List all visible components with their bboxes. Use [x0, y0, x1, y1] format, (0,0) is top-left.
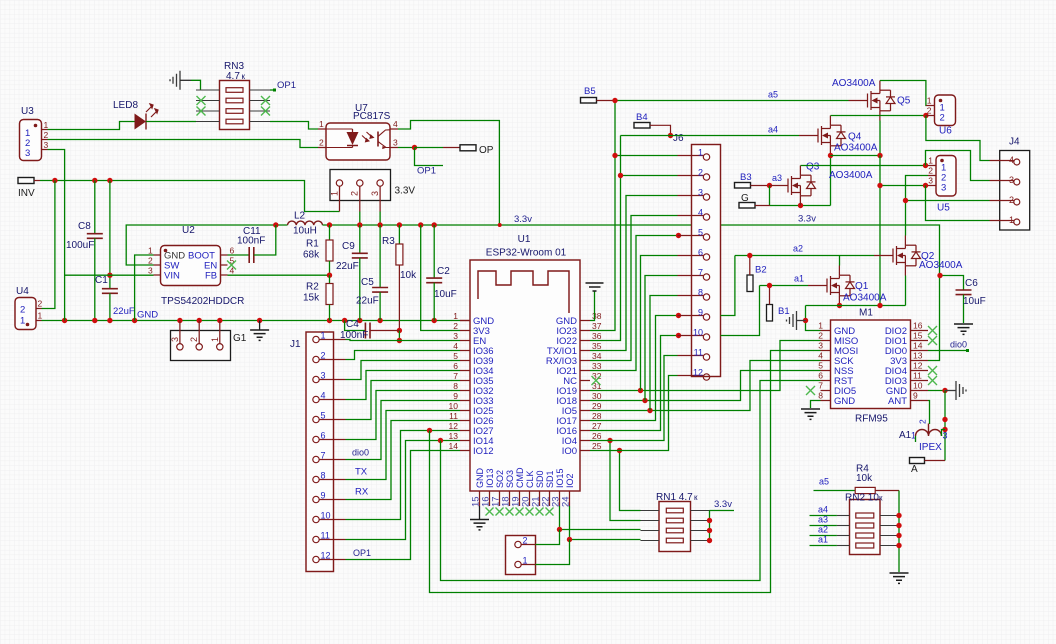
svg-text:1: 1 [1009, 215, 1014, 225]
svg-text:2: 2 [918, 419, 928, 424]
svg-text:3: 3 [941, 183, 946, 194]
junction [668, 133, 673, 138]
wire Q4 source [830, 156, 832, 206]
svg-text:a5: a5 [768, 90, 778, 100]
wire U5.3 row [880, 185, 928, 187]
svg-text:a4: a4 [818, 505, 828, 515]
svg-text:10: 10 [321, 511, 331, 521]
svg-text:OP1: OP1 [417, 166, 436, 177]
port B2 [747, 275, 753, 292]
wire J1.8 to U1 [346, 411, 461, 480]
junction [107, 178, 112, 183]
svg-text:8: 8 [453, 381, 458, 391]
junction [273, 222, 278, 227]
svg-text:CLK: CLK [525, 470, 535, 488]
junction [896, 533, 901, 538]
svg-text:2: 2 [189, 337, 199, 342]
svg-text:1: 1 [321, 331, 326, 341]
junction [828, 153, 833, 158]
svg-text:3: 3 [1009, 175, 1014, 185]
no-connect marks RN3 [197, 96, 206, 105]
wire ANT to IPEX [928, 401, 930, 425]
svg-text:26: 26 [592, 431, 602, 441]
svg-text:68k: 68k [303, 250, 320, 261]
svg-text:5: 5 [818, 361, 823, 371]
resistor R4 10k [814, 490, 856, 492]
junction [617, 448, 622, 453]
svg-text:M1: M1 [859, 308, 873, 319]
svg-text:4: 4 [321, 391, 326, 401]
wire P2.1 [536, 540, 570, 565]
junction [427, 428, 432, 433]
wire J1.6 to U1 [346, 391, 461, 440]
svg-text:U4: U4 [16, 286, 29, 297]
svg-text:1: 1 [210, 337, 220, 342]
svg-text:2: 2 [44, 130, 49, 140]
svg-text:2: 2 [20, 305, 25, 316]
svg-text:B1: B1 [778, 306, 790, 317]
junction [676, 333, 681, 338]
net label a2 (RN2) [810, 535, 837, 537]
wire a4 row [621, 135, 800, 137]
svg-text:U6: U6 [939, 126, 952, 137]
junction [557, 527, 562, 532]
wire IO15 to RN1.3 [560, 506, 641, 530]
transistor Q2 AO3400A [874, 236, 921, 276]
svg-text:IO2: IO2 [565, 473, 575, 488]
wire a1 to J6.10 [721, 286, 760, 336]
svg-text:10k: 10k [400, 270, 417, 281]
svg-text:U5: U5 [937, 203, 950, 214]
svg-text:10k: 10k [856, 473, 873, 484]
svg-text:IPEX: IPEX [919, 442, 942, 453]
transistor Q1 AO3400A [808, 266, 855, 306]
junction [357, 222, 362, 227]
no-connect M1.15 [928, 336, 937, 345]
wire M1.10 GND [928, 390, 945, 392]
wire J1.12 to U1 [346, 451, 461, 560]
wire RN1 common [709, 511, 711, 541]
junction [923, 183, 928, 188]
wire IO22 riser (a4) [590, 136, 621, 341]
junction [397, 328, 402, 333]
svg-text:2: 2 [928, 166, 933, 176]
svg-text:2: 2 [319, 138, 324, 148]
resistor R3 10k [398, 225, 400, 244]
svg-text:C4: C4 [346, 319, 359, 330]
svg-text:3: 3 [928, 176, 933, 186]
svg-text:12: 12 [449, 421, 459, 431]
svg-text:7: 7 [698, 268, 703, 278]
svg-text:Q3: Q3 [806, 162, 820, 173]
svg-text:14: 14 [449, 441, 459, 451]
svg-text:2: 2 [148, 256, 153, 266]
junction [418, 222, 423, 227]
wire RX to J6.4 [590, 216, 678, 361]
svg-text:36: 36 [592, 331, 602, 341]
svg-text:a3: a3 [818, 515, 828, 525]
svg-text:1: 1 [319, 119, 324, 129]
svg-text:3.3V: 3.3V [395, 186, 416, 197]
wire U3.3 to GND [48, 150, 65, 321]
wire IO16 to J6.10 [590, 336, 678, 431]
wire Q5 drain to U6.1 [880, 81, 926, 106]
svg-text:R3: R3 [382, 236, 395, 247]
wire 3.3v to ESP 3V3 [421, 225, 460, 331]
connector J4 [1000, 151, 1030, 231]
junction [877, 183, 882, 188]
wire U6.2 to J4.4 [926, 116, 990, 161]
svg-text:2: 2 [818, 331, 823, 341]
svg-text:1: 1 [453, 311, 458, 321]
wire R3/C4 to EN [398, 331, 400, 341]
wire J1.9 to U1 [346, 421, 461, 500]
junction [942, 427, 947, 432]
wire IO0 to J6.12 [590, 376, 678, 451]
junction [707, 528, 712, 533]
svg-text:CMD: CMD [515, 467, 525, 488]
svg-text:4.7: 4.7 [226, 71, 240, 82]
svg-text:5: 5 [453, 351, 458, 361]
svg-text:1: 1 [698, 148, 703, 158]
junction [803, 318, 808, 323]
junction [798, 203, 803, 208]
capacitor C8 100uF [94, 181, 96, 234]
wire IO5 to SCK [590, 361, 821, 411]
svg-text:12: 12 [693, 368, 703, 378]
junction [357, 318, 362, 323]
svg-text:2: 2 [38, 299, 43, 309]
svg-text:a1: a1 [794, 274, 804, 284]
wire J6.8 riser [650, 296, 678, 411]
svg-text:6: 6 [818, 371, 823, 381]
ground (rail) [259, 321, 261, 331]
junction [837, 303, 842, 308]
transistor Q3 AO3400A [769, 166, 816, 206]
svg-text:GND: GND [137, 310, 158, 321]
svg-text:12: 12 [321, 551, 331, 561]
module M1 RFM95 [831, 320, 911, 409]
wire U5.2 to J4.2 [906, 176, 990, 201]
svg-text:GND: GND [475, 468, 485, 489]
no-connect M1.12 [928, 366, 937, 375]
svg-text:C9: C9 [342, 241, 355, 252]
antenna connector A1 IPEX [916, 424, 942, 437]
svg-text:B2: B2 [755, 265, 767, 276]
junction [896, 543, 901, 548]
svg-text:C6: C6 [965, 278, 978, 289]
transistor Q4 AO3400A [799, 116, 846, 156]
junction [923, 113, 928, 118]
svg-text:J4: J4 [1009, 137, 1020, 148]
wire U7.3 to OP flag [398, 147, 415, 149]
junction [177, 318, 182, 323]
svg-text:GND: GND [834, 396, 855, 407]
wire J6.6 riser [641, 256, 678, 391]
svg-text:6: 6 [321, 431, 326, 441]
junction [92, 318, 97, 323]
wire Q1 drain [839, 256, 841, 266]
svg-text:AO3400A: AO3400A [832, 78, 876, 89]
svg-text:9: 9 [321, 491, 326, 501]
svg-text:33: 33 [592, 361, 602, 371]
junction [397, 222, 402, 227]
net label OP1 (U7) [415, 148, 444, 166]
svg-text:B3: B3 [740, 172, 752, 183]
svg-text:3: 3 [170, 337, 180, 342]
ground (C6) [954, 324, 973, 334]
wire U4.2 to INV [42, 181, 55, 309]
svg-text:OP1: OP1 [277, 80, 296, 91]
svg-text:к: к [694, 493, 698, 502]
svg-text:R1: R1 [306, 239, 319, 250]
junction [642, 398, 647, 403]
svg-text:PC817S: PC817S [353, 111, 391, 122]
svg-text:15k: 15k [303, 293, 320, 304]
svg-text:a3: a3 [772, 173, 782, 183]
wire IO19 to MISO [590, 341, 821, 391]
svg-text:22uF: 22uF [336, 261, 359, 272]
svg-text:4: 4 [453, 341, 458, 351]
svg-text:AO3400A: AO3400A [834, 143, 878, 154]
junction [62, 318, 67, 323]
net label a1 (RN2) [810, 545, 837, 547]
junction [327, 318, 332, 323]
junction (3.3v label) [498, 223, 502, 227]
junction [342, 318, 347, 323]
junction [647, 408, 652, 413]
junction [327, 273, 332, 278]
svg-text:U1: U1 [518, 234, 531, 245]
svg-text:3: 3 [818, 341, 823, 351]
wire IO2 to RN1.4 [570, 506, 641, 540]
wire a4 to J6.2 [621, 175, 678, 177]
capacitor C5 22uF [379, 225, 381, 288]
svg-text:2: 2 [321, 351, 326, 361]
svg-text:Q4: Q4 [848, 132, 862, 143]
svg-text:1: 1 [44, 120, 49, 130]
svg-text:2: 2 [523, 536, 528, 546]
svg-text:100nF: 100nF [237, 236, 265, 247]
connector J1 [306, 332, 334, 572]
svg-text:a1: a1 [818, 535, 828, 545]
junction [377, 222, 382, 227]
no-connect M1.7 [806, 386, 815, 395]
svg-text:2: 2 [927, 106, 932, 116]
svg-text:U3: U3 [21, 106, 34, 117]
junction [92, 178, 97, 183]
ground (tilted, M1.1) [797, 320, 806, 322]
svg-text:4: 4 [393, 119, 398, 129]
wire gnd row 305 [806, 305, 906, 307]
capacitor C2 10uF [433, 225, 435, 278]
junction [327, 222, 332, 227]
junction [942, 388, 947, 393]
svg-text:9: 9 [913, 391, 918, 401]
port G [739, 203, 755, 209]
junction [767, 183, 772, 188]
svg-text:30: 30 [592, 391, 602, 401]
svg-text:a2: a2 [793, 244, 803, 254]
svg-text:SO2: SO2 [495, 470, 505, 488]
svg-text:1: 1 [20, 316, 25, 327]
svg-text:1: 1 [148, 246, 153, 256]
resistor network RN1 4.7k [659, 502, 691, 552]
svg-text:11: 11 [321, 531, 330, 541]
svg-text:8: 8 [321, 471, 326, 481]
junction [896, 513, 901, 518]
svg-text:IO13: IO13 [485, 468, 495, 488]
junction [612, 98, 617, 103]
svg-text:SO3: SO3 [505, 470, 515, 488]
svg-text:A: A [911, 464, 918, 475]
LED LED8 [135, 114, 147, 130]
svg-text:к: к [242, 72, 246, 81]
net label OP1 (RN3) [270, 89, 275, 91]
wire U5.3 to J4.1 [926, 186, 990, 221]
net label a3 (RN2) [810, 525, 837, 527]
svg-text:RX: RX [355, 487, 369, 498]
port B3 [735, 183, 751, 189]
svg-text:J6: J6 [673, 133, 684, 144]
junction [903, 198, 908, 203]
svg-text:1: 1 [38, 311, 43, 321]
capacitor C4 100nF [345, 321, 366, 331]
svg-text:G: G [741, 193, 749, 204]
svg-text:1: 1 [928, 156, 933, 166]
port A [910, 458, 925, 464]
resistor network RN2 10k [850, 500, 881, 555]
svg-text:G1: G1 [233, 333, 247, 344]
svg-text:IO0: IO0 [562, 446, 577, 457]
svg-text:2: 2 [940, 113, 945, 124]
svg-text:INV: INV [18, 188, 35, 199]
wire U5.1 to J4.3 [926, 151, 990, 181]
svg-text:12: 12 [913, 361, 923, 371]
svg-text:28: 28 [592, 411, 602, 421]
port OP [415, 147, 444, 149]
no-connect U1.32 [592, 376, 601, 385]
wire gnd to RN3.1 [191, 80, 201, 90]
wire M1.8 to ground [811, 401, 821, 409]
connector U5 [936, 156, 956, 197]
junction [197, 318, 202, 323]
wire R4 to gnd [898, 491, 900, 573]
svg-text:16: 16 [913, 321, 923, 331]
wire U3.1 to LED8 [48, 122, 135, 130]
svg-text:L2: L2 [294, 211, 306, 222]
svg-text:9: 9 [698, 308, 703, 318]
svg-text:100uF: 100uF [66, 240, 94, 251]
svg-text:3: 3 [321, 371, 326, 381]
wire IO4 to J6.11 [590, 356, 678, 441]
svg-text:3.3v: 3.3v [714, 499, 732, 510]
resistor R1 68k [329, 225, 331, 240]
svg-text:B4: B4 [636, 112, 648, 123]
svg-text:3: 3 [44, 140, 49, 150]
wire 3.3v rail [323, 225, 940, 361]
wire IO23 riser (a5) [590, 101, 615, 331]
junction [567, 537, 572, 542]
svg-text:ESP32-Wroom 01: ESP32-Wroom 01 [486, 248, 567, 259]
wire LED8 to RN3.4 [146, 121, 196, 123]
svg-text:13: 13 [913, 351, 923, 361]
no-connect marks U1 bottom [486, 508, 494, 516]
connector U3 [20, 120, 42, 161]
svg-text:9: 9 [453, 391, 458, 401]
wire IO0 to RN1.1 [620, 451, 641, 511]
junction [107, 318, 112, 323]
inductor L2 10uH [288, 221, 323, 225]
svg-text:25: 25 [592, 441, 602, 451]
svg-text:3: 3 [370, 191, 380, 196]
optocoupler U7 PC817S [326, 123, 390, 160]
svg-text:C1: C1 [95, 275, 108, 286]
junction [707, 518, 712, 523]
svg-text:J1: J1 [290, 339, 301, 350]
junction [618, 173, 623, 178]
svg-text:SD0: SD0 [535, 470, 545, 488]
junction [107, 273, 112, 278]
svg-text:3: 3 [148, 266, 153, 276]
junction [877, 153, 882, 158]
wire P2.2 [536, 530, 560, 545]
junction [747, 253, 752, 258]
port B1 [767, 305, 773, 322]
svg-text:a4: a4 [768, 125, 778, 135]
svg-text:B5: B5 [584, 86, 596, 97]
connector U4 [15, 298, 36, 330]
ground (M1.8) [801, 409, 820, 419]
svg-text:24: 24 [560, 496, 571, 507]
ground (tilted, M1.10) [945, 390, 956, 392]
wire U3.2 to U7.2 [48, 140, 319, 148]
capacitor C9 22uF [359, 225, 361, 253]
svg-text:11: 11 [913, 371, 922, 381]
svg-text:FB: FB [205, 271, 217, 282]
svg-text:RFM95: RFM95 [855, 414, 888, 425]
junction [132, 318, 137, 323]
svg-text:SD1: SD1 [545, 470, 555, 488]
wire U2.2 SW to L2 [126, 225, 287, 265]
wire gnd drop [879, 156, 881, 306]
svg-text:3: 3 [943, 431, 948, 441]
svg-text:10uF: 10uF [434, 289, 457, 300]
svg-text:2: 2 [1009, 195, 1014, 205]
wire Q4 drain to U6.2 [831, 115, 927, 117]
transistor Q5 AO3400A [849, 81, 896, 121]
junction [217, 318, 222, 323]
wire U2.4 FB [228, 274, 330, 276]
svg-text:10: 10 [913, 381, 923, 391]
svg-text:C2: C2 [437, 266, 450, 277]
svg-text:1: 1 [927, 96, 932, 106]
svg-text:27: 27 [592, 421, 602, 431]
no-connect M1.11 [928, 376, 937, 385]
svg-text:4: 4 [1009, 155, 1014, 165]
wire J1.4 to U1 [346, 371, 461, 400]
wire J1.2 to U1 [346, 351, 461, 360]
svg-text:a2: a2 [818, 525, 828, 535]
junction [896, 523, 901, 528]
svg-text:2: 2 [698, 168, 703, 178]
wire G row [770, 205, 831, 207]
svg-text:2: 2 [350, 191, 360, 196]
svg-text:1: 1 [329, 191, 339, 196]
junction [676, 233, 681, 238]
svg-text:3: 3 [698, 188, 703, 198]
svg-text:OP: OP [479, 145, 494, 156]
